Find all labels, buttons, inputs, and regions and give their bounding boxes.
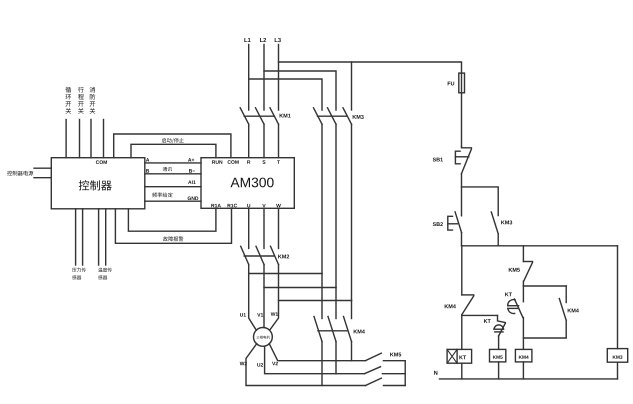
- wire AI1: [145, 186, 201, 188]
- contactor KM2 pole 2: [256, 246, 264, 264]
- label N: [434, 371, 437, 375]
- contactor KM3 pole 3: [343, 108, 352, 124]
- label 三相电机: [256, 336, 259, 339]
- label 温度传感器: [98, 268, 102, 272]
- node L2: [260, 38, 263, 42]
- wire GND: [145, 200, 201, 202]
- wire switch 1: [65, 120, 67, 158]
- contact KT delayed NO: [515, 299, 523, 317]
- pin S: [262, 160, 265, 164]
- label B: [146, 169, 149, 172]
- wire W drop: [278, 208, 280, 248]
- wire controller power 1: [34, 167, 51, 169]
- label W2: [240, 362, 245, 365]
- wire L1 branch to KM3: [249, 79, 322, 110]
- op-box U1 AM300 inverter: [201, 158, 294, 209]
- wire bus phase3: [279, 300, 352, 302]
- contactor KM2 pole 3: [271, 246, 279, 264]
- wire KT to junction: [522, 318, 524, 350]
- wire to node D: [522, 281, 524, 302]
- KM4 pole1 top wire: [321, 274, 323, 319]
- label switch 3 消防开关: [90, 87, 96, 93]
- wire motor feed 1: [249, 265, 257, 331]
- contact KT delayed (to KM5 coil): [498, 315, 506, 322]
- pin R1C: [228, 204, 231, 207]
- coil KM4: [515, 349, 532, 362]
- label V2: [272, 362, 275, 365]
- contact KM4 aux NO: [565, 286, 567, 303]
- wire KM3 aux to rail: [497, 234, 499, 246]
- contactor KM3 pole 2: [328, 108, 337, 124]
- contactor KM1 pole 1: [240, 108, 249, 124]
- KM5 stub 1: [383, 360, 405, 362]
- pin RUN: [212, 160, 215, 163]
- label U2: [257, 363, 260, 366]
- wire KM3 pole2 down: [335, 124, 337, 287]
- wire KM3 pole3 feed: [351, 62, 353, 110]
- contact KM5 NC: [523, 261, 532, 263]
- wire V drop: [263, 208, 265, 248]
- label AI1: [188, 180, 191, 183]
- control rail node B: [462, 245, 618, 247]
- KM4 pole2 top wire: [335, 288, 337, 319]
- label KT: [484, 319, 487, 323]
- KM4 pole3 top wire: [351, 301, 353, 319]
- contactor KM4 pole 1: [314, 317, 322, 342]
- label A+: [188, 158, 191, 161]
- wire pressure sensor 2: [82, 209, 84, 265]
- contactor KM1 pole 2: [256, 108, 265, 124]
- contactor KM3 pole 1: [314, 108, 323, 124]
- label switch 1 循环开关: [65, 87, 71, 93]
- wire U2 to star bus: [265, 346, 365, 373]
- label controller 控制器: [79, 180, 89, 190]
- KM2 linkage: [244, 255, 274, 257]
- label 压力传感器: [72, 268, 76, 272]
- wire KM4 aux return: [523, 320, 566, 338]
- pushbutton SB1 (stop, NC): [462, 147, 472, 148]
- KM3 aux contact (NO): [491, 212, 498, 234]
- wire L2 branch to KM3: [264, 71, 336, 110]
- wire motor feed 3: [270, 265, 279, 331]
- wire B to B-: [145, 173, 201, 175]
- label KM5: [390, 353, 394, 357]
- KM5 stub 2: [383, 373, 406, 375]
- wire KM1 to T: [278, 124, 280, 158]
- wire switch 3: [90, 120, 92, 158]
- KM4 pole1 bottom wire: [321, 342, 323, 386]
- pin COM (controller): [96, 160, 99, 164]
- wire KM3 pole1 down: [321, 124, 323, 273]
- label U1: [240, 313, 243, 316]
- contactor KM4 pole 3: [344, 317, 352, 342]
- wire motor feed 2: [263, 265, 265, 328]
- wire KM3 coil to N: [617, 362, 619, 379]
- wire KM5 coil to N: [498, 362, 500, 379]
- label KT: [505, 292, 508, 296]
- node C wire to KT contact: [462, 314, 498, 316]
- label W1: [271, 312, 276, 315]
- label SB1: [433, 158, 436, 162]
- pin V: [262, 204, 265, 207]
- label KM1: [280, 114, 284, 118]
- contact KM4 NC: [462, 294, 474, 296]
- contactor KM4 pole 2: [328, 317, 336, 342]
- label switch 2 行程开关: [78, 87, 84, 93]
- KM3 linkage: [318, 115, 348, 117]
- wire SB2 to rail: [461, 233, 463, 246]
- wire KM1 to R: [248, 124, 250, 158]
- pin U: [247, 204, 250, 207]
- wire switch 2: [79, 120, 81, 158]
- pin T: [277, 160, 280, 163]
- wire R1C fault return: [115, 208, 231, 243]
- label KM5 NC: [509, 268, 513, 272]
- node D wire: [523, 285, 566, 287]
- wire node A to KM3 aux: [462, 187, 499, 216]
- wire branch3: [617, 246, 619, 349]
- pin R1A: [211, 204, 214, 207]
- label 控制器电源: [7, 171, 12, 176]
- wire temp sensor 1: [98, 209, 100, 265]
- wire controller power 2: [34, 177, 51, 179]
- label AM300: [230, 178, 239, 187]
- KM4 pole2 bottom wire: [335, 342, 337, 374]
- wire to KT coil: [461, 315, 463, 350]
- rail N: [440, 378, 618, 380]
- pin W: [276, 204, 281, 207]
- node L3: [275, 38, 278, 42]
- pin COM: [228, 160, 231, 164]
- wire COM stub: [103, 120, 105, 158]
- wire W2 to star bus: [246, 344, 365, 386]
- contactor KM5 blade 2: [365, 367, 381, 374]
- wire branch2: [522, 246, 524, 262]
- contactor KM1 pole 3: [270, 108, 279, 124]
- wire KM1 to S: [263, 124, 265, 158]
- pushbutton SB2 (start, NO): [455, 212, 462, 233]
- wire L2 drop: [263, 45, 265, 111]
- label KM3: [353, 115, 357, 119]
- wire start/stop to COM pin: [114, 134, 231, 158]
- label GND: [188, 197, 191, 201]
- wire branch1: [461, 246, 463, 295]
- label SB2: [433, 222, 436, 226]
- label 启动/停止: [162, 138, 166, 143]
- controller box: [51, 158, 145, 209]
- pin R: [247, 160, 250, 163]
- KM4 pole3 bottom wire: [351, 342, 353, 361]
- wire KT coil to N: [461, 363, 463, 379]
- label FU: [448, 82, 451, 86]
- wire SB1 to node A: [461, 174, 463, 216]
- label 频率给定: [152, 192, 157, 197]
- wire L3 drop: [278, 45, 280, 111]
- wire KM3 pole3 down: [351, 124, 353, 300]
- label 故障报警: [163, 236, 168, 241]
- wire bus phase1 to KM3/KM4: [249, 273, 322, 275]
- contactor KM5 blade 1: [365, 353, 381, 361]
- coil KM5: [490, 349, 506, 362]
- label KM4: [354, 330, 358, 334]
- label V1: [257, 313, 260, 316]
- wire to KM5 coil: [498, 336, 500, 349]
- coil KM3: [607, 349, 627, 363]
- motor M1 circle: [254, 328, 273, 347]
- fuse FU: [461, 73, 463, 146]
- KM4 linkage: [318, 330, 347, 332]
- label KM4 NC: [445, 304, 449, 308]
- KM5 stub 3: [384, 385, 406, 387]
- contactor KM5 blade 3: [365, 378, 381, 385]
- wire U drop: [248, 208, 250, 248]
- wire R1A fault return: [128, 208, 216, 231]
- wire V2 to star bus: [269, 344, 365, 361]
- wire KM4 coil to N: [522, 362, 524, 379]
- label KM4 aux: [568, 309, 572, 313]
- KM5 star bar: [404, 361, 406, 386]
- wire temp sensor 2: [105, 209, 107, 265]
- contactor KM2 pole 1: [241, 246, 249, 264]
- wire L1 drop: [248, 45, 250, 111]
- label KM3 aux: [501, 221, 505, 225]
- wire bus phase2: [264, 287, 336, 289]
- label B-: [189, 169, 192, 172]
- label KM2: [278, 255, 282, 259]
- label A: [146, 158, 149, 161]
- wire L3 branch to FU and KM3: [279, 62, 462, 73]
- KM1 linkage: [244, 115, 274, 117]
- wire to RUN pin: [131, 144, 216, 157]
- node L1: [244, 38, 247, 42]
- wire pressure sensor 1: [75, 209, 77, 265]
- label 通讯: [163, 167, 167, 171]
- wire A to A+: [145, 162, 201, 164]
- time relay coil KT: [447, 349, 472, 363]
